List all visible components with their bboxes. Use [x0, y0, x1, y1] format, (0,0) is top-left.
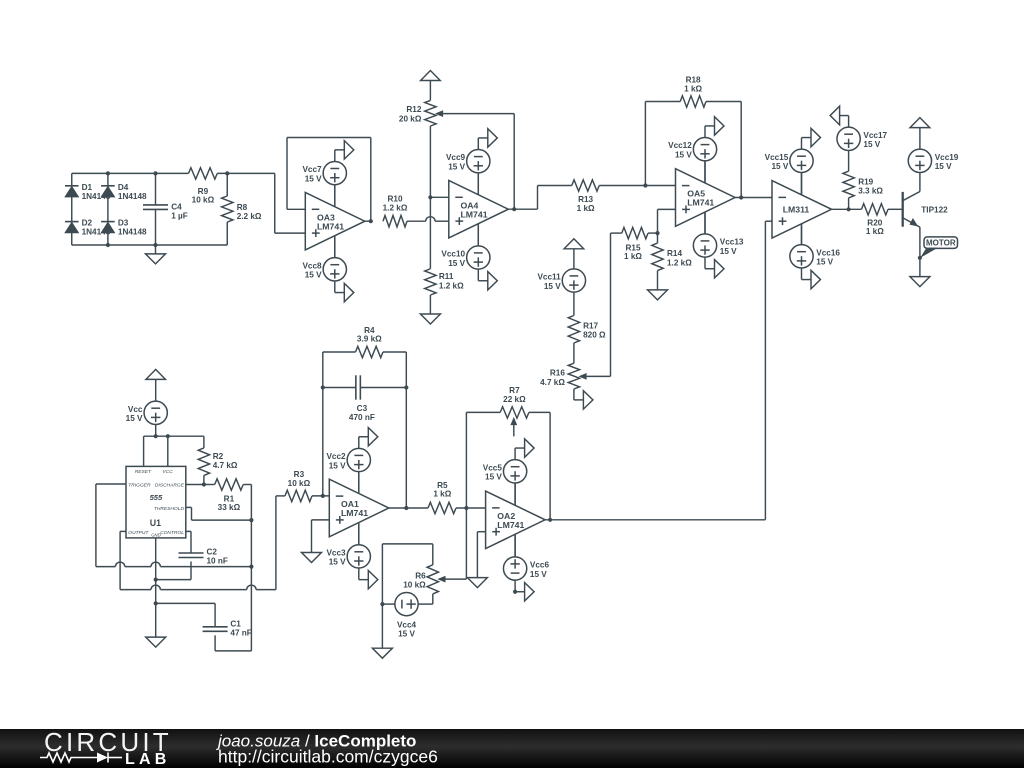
svg-text:Vcc: Vcc	[128, 405, 143, 414]
svg-text:1 kΩ: 1 kΩ	[624, 252, 642, 261]
svg-text:1N4148: 1N4148	[118, 192, 147, 201]
svg-text:C3: C3	[357, 404, 368, 413]
svg-text:Vcc10: Vcc10	[441, 250, 465, 259]
svg-text:33 kΩ: 33 kΩ	[218, 503, 241, 512]
svg-text:R20: R20	[867, 219, 882, 228]
svg-text:15 V: 15 V	[398, 630, 415, 639]
svg-text:15 V: 15 V	[485, 473, 502, 482]
svg-text:470 nF: 470 nF	[349, 413, 375, 422]
svg-text:R2: R2	[213, 452, 224, 461]
svg-text:15 V: 15 V	[935, 162, 952, 171]
svg-text:OUTPUT: OUTPUT	[128, 530, 149, 536]
svg-text:20 kΩ: 20 kΩ	[399, 114, 422, 123]
svg-text:Vcc12: Vcc12	[668, 141, 692, 150]
svg-text:Vcc13: Vcc13	[720, 238, 744, 247]
svg-text:Vcc6: Vcc6	[530, 561, 550, 570]
svg-text:R10: R10	[387, 195, 402, 204]
svg-text:CONTROL: CONTROL	[160, 530, 184, 536]
svg-text:15 V: 15 V	[720, 247, 737, 256]
svg-text:Vcc3: Vcc3	[326, 548, 346, 557]
svg-text:1.2 kΩ: 1.2 kΩ	[439, 281, 464, 290]
svg-text:820 Ω: 820 Ω	[583, 331, 606, 340]
svg-text:R6: R6	[415, 571, 426, 580]
svg-text:R7: R7	[509, 386, 520, 395]
svg-text:15 V: 15 V	[675, 151, 692, 160]
svg-text:15 V: 15 V	[771, 162, 788, 171]
svg-text:TIP122: TIP122	[921, 205, 948, 214]
svg-text:R16: R16	[550, 368, 565, 377]
svg-text:LM311: LM311	[783, 205, 810, 215]
svg-text:MOTOR: MOTOR	[926, 239, 956, 248]
svg-text:R11: R11	[439, 272, 454, 281]
svg-text:R17: R17	[583, 321, 598, 330]
svg-text:15 V: 15 V	[816, 258, 833, 267]
svg-text:1 µF: 1 µF	[171, 212, 188, 221]
svg-text:LM741: LM741	[341, 508, 368, 518]
svg-text:1.2 kΩ: 1.2 kΩ	[667, 258, 692, 267]
svg-text:10 kΩ: 10 kΩ	[403, 581, 426, 590]
svg-text:R5: R5	[437, 481, 448, 490]
svg-text:1N4148: 1N4148	[118, 228, 147, 237]
svg-text:VCC: VCC	[162, 469, 173, 475]
svg-text:2.2 kΩ: 2.2 kΩ	[237, 212, 262, 221]
svg-text:LM741: LM741	[317, 221, 344, 231]
svg-text:R4: R4	[364, 326, 375, 335]
svg-text:RESET: RESET	[135, 469, 152, 475]
svg-text:C4: C4	[171, 203, 182, 212]
svg-text:Vcc16: Vcc16	[816, 248, 840, 257]
svg-text:10 kΩ: 10 kΩ	[192, 196, 215, 205]
svg-text:Vcc19: Vcc19	[935, 153, 959, 162]
svg-text:R15: R15	[625, 243, 640, 252]
svg-text:R18: R18	[686, 76, 701, 85]
svg-text:D4: D4	[118, 183, 129, 192]
svg-text:1 kΩ: 1 kΩ	[684, 84, 702, 93]
svg-text:D3: D3	[118, 219, 129, 228]
svg-text:U1: U1	[150, 518, 161, 528]
svg-text:GND: GND	[151, 533, 161, 538]
svg-text:LM741: LM741	[687, 198, 714, 208]
svg-text:10 kΩ: 10 kΩ	[288, 479, 311, 488]
svg-text:3.9 kΩ: 3.9 kΩ	[357, 335, 382, 344]
svg-text:Vcc2: Vcc2	[326, 452, 346, 461]
svg-text:DISCHARGE: DISCHARGE	[155, 483, 185, 489]
svg-text:Vcc8: Vcc8	[302, 261, 322, 270]
svg-text:15 V: 15 V	[863, 140, 880, 149]
svg-text:4.7 kΩ: 4.7 kΩ	[213, 461, 238, 470]
svg-text:15 V: 15 V	[329, 461, 346, 470]
svg-text:Vcc15: Vcc15	[765, 153, 789, 162]
svg-text:47 nF: 47 nF	[230, 629, 251, 638]
svg-text:15 V: 15 V	[544, 282, 561, 291]
svg-text:15 V: 15 V	[305, 271, 322, 280]
svg-text:R3: R3	[294, 470, 305, 479]
svg-text:10 nF: 10 nF	[207, 557, 228, 566]
svg-text:C2: C2	[207, 548, 218, 557]
svg-text:LAB: LAB	[125, 751, 170, 768]
svg-text:D1: D1	[82, 183, 93, 192]
svg-text:http://circuitlab.com/czygce6: http://circuitlab.com/czygce6	[218, 747, 438, 767]
svg-text:R19: R19	[858, 177, 873, 186]
svg-text:R14: R14	[667, 249, 682, 258]
svg-text:Vcc11: Vcc11	[537, 273, 561, 282]
svg-text:D2: D2	[82, 219, 93, 228]
svg-text:Vcc5: Vcc5	[483, 463, 503, 472]
svg-text:THRESHOLD: THRESHOLD	[154, 506, 185, 512]
svg-text:Vcc17: Vcc17	[863, 131, 887, 140]
svg-text:C1: C1	[230, 619, 241, 628]
svg-text:TRIGGER: TRIGGER	[128, 482, 151, 488]
svg-text:R12: R12	[406, 105, 421, 114]
svg-text:1.2 kΩ: 1.2 kΩ	[383, 203, 408, 212]
svg-text:R13: R13	[578, 195, 593, 204]
svg-text:22 kΩ: 22 kΩ	[503, 395, 526, 404]
svg-text:1 kΩ: 1 kΩ	[866, 227, 884, 236]
svg-text:LM741: LM741	[461, 209, 488, 219]
svg-text:Vcc7: Vcc7	[302, 165, 322, 174]
svg-text:1 kΩ: 1 kΩ	[433, 490, 451, 499]
svg-text:15 V: 15 V	[530, 570, 547, 579]
svg-text:Vcc9: Vcc9	[446, 153, 466, 162]
svg-text:15 V: 15 V	[448, 163, 465, 172]
svg-text:15 V: 15 V	[126, 414, 143, 423]
svg-text:R1: R1	[224, 494, 235, 503]
svg-text:15 V: 15 V	[448, 259, 465, 268]
svg-text:Vcc4: Vcc4	[397, 620, 417, 629]
svg-text:15 V: 15 V	[329, 558, 346, 567]
svg-text:LM741: LM741	[497, 520, 524, 530]
svg-text:4.7 kΩ: 4.7 kΩ	[540, 378, 565, 387]
svg-text:R8: R8	[237, 203, 248, 212]
svg-text:R9: R9	[198, 187, 209, 196]
svg-text:555: 555	[150, 493, 163, 502]
svg-text:1 kΩ: 1 kΩ	[577, 204, 595, 213]
svg-text:3.3 kΩ: 3.3 kΩ	[858, 187, 883, 196]
svg-text:15 V: 15 V	[305, 174, 322, 183]
